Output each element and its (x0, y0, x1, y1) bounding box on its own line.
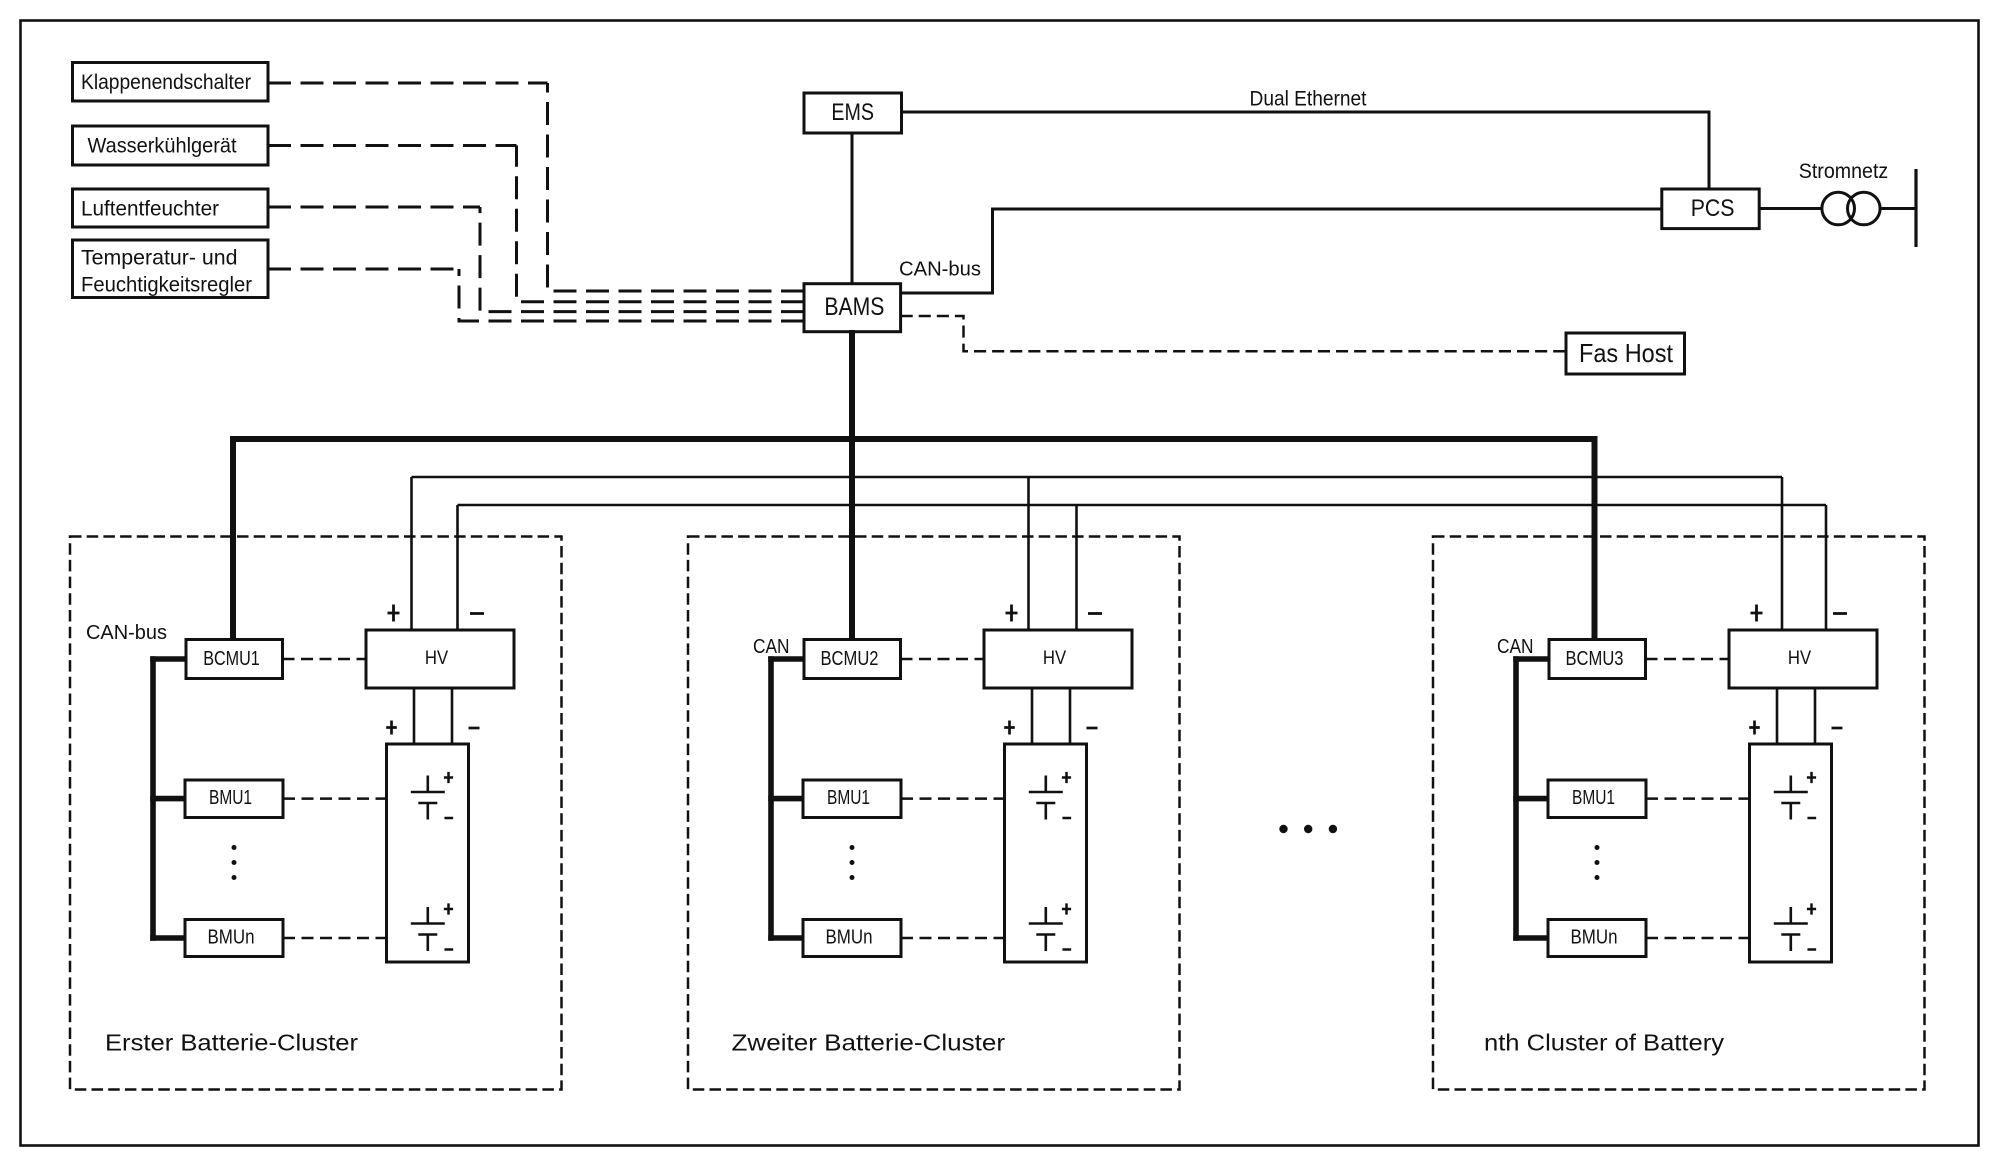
svg-text:BAMS: BAMS (824, 293, 884, 321)
svg-text:HV: HV (1043, 647, 1066, 669)
svg-text:CAN: CAN (1497, 636, 1534, 658)
svg-text:Feuchtigkeitsregler: Feuchtigkeitsregler (81, 273, 252, 297)
svg-text:CAN-bus: CAN-bus (86, 622, 167, 644)
svg-text:BCMU1: BCMU1 (203, 647, 260, 670)
svg-text:BMUn: BMUn (208, 927, 255, 949)
svg-text:Luftentfeuchter: Luftentfeuchter (81, 197, 219, 221)
svg-text:BMUn: BMUn (826, 927, 873, 949)
svg-text:Klappenendschalter: Klappenendschalter (81, 70, 251, 94)
svg-text:BMUn: BMUn (1571, 927, 1618, 949)
svg-text:Erster Batterie-Cluster: Erster Batterie-Cluster (105, 1030, 358, 1056)
svg-text:CAN-bus: CAN-bus (899, 259, 981, 281)
svg-text:Temperatur- und: Temperatur- und (81, 246, 238, 270)
svg-text:Fas Host: Fas Host (1579, 338, 1674, 368)
svg-text:PCS: PCS (1691, 195, 1735, 222)
svg-text:Zweiter Batterie-Cluster: Zweiter Batterie-Cluster (732, 1030, 1006, 1056)
svg-text:EMS: EMS (831, 99, 874, 126)
svg-text:BCMU2: BCMU2 (821, 647, 879, 670)
svg-text:BMU1: BMU1 (209, 787, 252, 809)
svg-text:Wasserkühlgerät: Wasserkühlgerät (88, 134, 237, 158)
svg-text:Stromnetz: Stromnetz (1799, 160, 1889, 183)
svg-text:BCMU3: BCMU3 (1566, 647, 1624, 670)
svg-text:CAN: CAN (753, 636, 790, 658)
svg-text:BMU1: BMU1 (1572, 787, 1615, 809)
svg-text:Dual Ethernet: Dual Ethernet (1250, 88, 1367, 111)
svg-text:HV: HV (1788, 647, 1811, 669)
svg-text:BMU1: BMU1 (827, 787, 870, 809)
svg-text:nth Cluster of Battery: nth Cluster of Battery (1484, 1030, 1724, 1056)
svg-text:HV: HV (425, 647, 448, 669)
